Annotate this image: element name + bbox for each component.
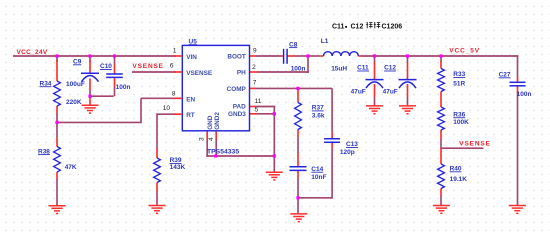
svg-text:47uF: 47uF — [383, 88, 398, 95]
svg-text:GND2: GND2 — [214, 112, 221, 130]
svg-text:C12: C12 — [351, 23, 364, 30]
svg-text:19.1K: 19.1K — [450, 176, 468, 183]
svg-text:TPS54335: TPS54335 — [207, 149, 239, 156]
svg-text:9: 9 — [253, 47, 257, 54]
svg-text:L1: L1 — [321, 38, 329, 45]
svg-text:10nF: 10nF — [311, 174, 326, 181]
svg-text:6: 6 — [170, 63, 174, 70]
svg-text:11: 11 — [255, 98, 262, 105]
svg-text:143K: 143K — [170, 164, 186, 171]
svg-text:VSENSE: VSENSE — [186, 70, 213, 77]
svg-text:100n: 100n — [291, 66, 306, 73]
svg-text:2: 2 — [252, 64, 256, 71]
svg-text:VSENSE: VSENSE — [459, 141, 490, 148]
svg-text:51R: 51R — [453, 81, 465, 88]
svg-text:GND3: GND3 — [228, 111, 246, 118]
svg-text:100n: 100n — [116, 84, 131, 91]
svg-text:VIN: VIN — [186, 54, 197, 61]
svg-text:100uF: 100uF — [66, 81, 85, 88]
svg-text:8: 8 — [172, 91, 176, 98]
svg-text:VCC_24V: VCC_24V — [17, 49, 48, 56]
svg-text:BOOT: BOOT — [227, 54, 246, 61]
svg-text:4: 4 — [208, 137, 215, 141]
svg-text:10: 10 — [163, 105, 171, 112]
svg-text:GND: GND — [207, 115, 214, 130]
svg-text:47K: 47K — [65, 164, 77, 171]
svg-text:COMP: COMP — [227, 86, 247, 93]
svg-text:7: 7 — [253, 79, 257, 86]
svg-text:3.6k: 3.6k — [312, 113, 325, 120]
svg-text:1: 1 — [173, 48, 177, 55]
svg-text:C11: C11 — [332, 23, 345, 30]
svg-text:47uF: 47uF — [351, 88, 366, 95]
svg-text:PH: PH — [237, 70, 246, 77]
svg-text:PAD: PAD — [233, 104, 246, 111]
svg-text:100K: 100K — [453, 119, 469, 126]
svg-text:5: 5 — [255, 106, 259, 113]
svg-text:VCC_5V: VCC_5V — [449, 47, 480, 54]
svg-text:220K: 220K — [66, 99, 82, 106]
svg-text:C1206: C1206 — [382, 23, 403, 30]
svg-text:EN: EN — [186, 96, 195, 103]
svg-text:VSENSE: VSENSE — [132, 63, 163, 70]
svg-text:15uH: 15uH — [331, 66, 347, 73]
svg-text:3: 3 — [199, 137, 206, 141]
svg-text:RT: RT — [186, 112, 195, 119]
svg-text:100n: 100n — [517, 91, 532, 98]
svg-text:120p: 120p — [340, 149, 355, 156]
